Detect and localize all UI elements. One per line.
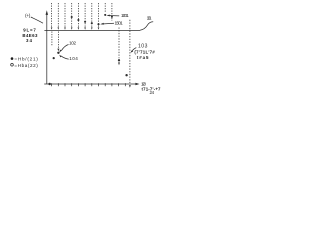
below-surface dashed stub a: [51, 32, 53, 47]
svg-text:t#a5: t#a5: [137, 55, 149, 60]
ion dot on t10: [111, 16, 113, 18]
svg-text:101: 101: [147, 15, 152, 21]
leader to right text block 103: [131, 48, 136, 52]
svg-text:=Hba(22): =Hba(22): [14, 63, 38, 68]
svg-text:9L=7: 9L=7: [23, 27, 36, 32]
arrowhead of leader 102: [60, 50, 62, 53]
dashed trajectory t5: [77, 3, 79, 27]
origin dot on axis X: [48, 83, 50, 85]
ion dot on t5: [77, 19, 79, 21]
arrowhead t4 (down, at surface): [71, 27, 73, 29]
axis X: bottom horizontal time axis: [44, 83, 136, 85]
dashed trajectory t6: [84, 3, 86, 27]
arrowhead L1 (down, below dot): [118, 62, 120, 65]
legend marker ion type 2: [11, 64, 14, 67]
surface line 101 (electrode surface): [44, 30, 140, 32]
arrowhead of axis X (right): [135, 83, 139, 85]
ion dot on t8 (pointed by label 1501): [97, 23, 99, 25]
dashed trajectory t9: [104, 3, 106, 12]
arrowhead t3 (down, at surface): [64, 27, 66, 29]
svg-text:34: 34: [26, 38, 33, 43]
ion dot 104 (second ion): [53, 57, 55, 59]
leader swoosh to label 101: [140, 22, 153, 30]
ion dot on t6: [84, 21, 86, 23]
arrowhead t8 (down, at surface): [98, 27, 100, 29]
ion dot on t4: [71, 16, 73, 18]
leader curve to label 102: [61, 45, 68, 51]
ion dot on L1: [118, 59, 120, 61]
long dashed trace L1 below surface: [118, 28, 120, 59]
axis Y: left vertical axis (potential axis, marked +): [46, 14, 48, 84]
dashed trajectory t7: [91, 3, 93, 27]
leader from (+) to axis Y: [31, 17, 43, 23]
arrowhead stub b (down): [57, 49, 59, 52]
tick marks on axis X: [52, 83, 126, 86]
legend marker ion type 1: [11, 57, 14, 60]
dashed trajectory t8: [98, 3, 100, 27]
arrowhead t2 (down, at surface): [58, 27, 60, 29]
ion dot beside L2: [125, 74, 127, 76]
dashed trajectory t2: [57, 3, 59, 27]
dashed trajectory t1: [51, 3, 53, 27]
ion dot 102 at end of stub b: [57, 52, 59, 54]
arrowhead of axis Y (up): [46, 10, 49, 15]
below-surface dashed stub b: [57, 32, 59, 50]
arrowhead t5 (down, at surface): [78, 27, 80, 29]
arrowhead t6 (down, at surface): [84, 27, 86, 29]
svg-text:1001: 1001: [121, 13, 129, 18]
dashed trajectory t10: [111, 3, 113, 21]
svg-text:=Hb/(21): =Hb/(21): [14, 57, 38, 62]
arrowhead of leader 104: [59, 55, 61, 58]
svg-text:104: 104: [69, 56, 78, 61]
arrowhead of leader 1001 (points at t9 dot): [106, 15, 109, 17]
svg-text:24: 24: [150, 90, 155, 95]
ion dot on t7: [91, 22, 93, 24]
dashed trajectory t3: [64, 3, 66, 27]
arrowhead t1 (down, at surface): [51, 27, 53, 29]
svg-text:1501: 1501: [115, 21, 124, 26]
long dashed trace L2 below surface (crosses axis X): [129, 20, 131, 83]
leader curve to label 104: [61, 56, 69, 59]
svg-text:102: 102: [69, 41, 76, 46]
svg-text:(+): (+): [25, 13, 31, 19]
leader line to label 1001: [108, 15, 119, 17]
dashed trajectory t4: [71, 3, 73, 27]
arrowhead of leader 1501 (points at t8 dot): [100, 23, 104, 25]
arrowhead t7 (down, at surface): [91, 27, 93, 29]
arrowhead of leader 103 (points at L2): [130, 50, 133, 53]
arrowhead L2 (down, below axis X): [129, 85, 131, 88]
ion dot on t9 (pointed by label 1001): [104, 14, 106, 16]
leader line to label 1501: [102, 22, 114, 25]
